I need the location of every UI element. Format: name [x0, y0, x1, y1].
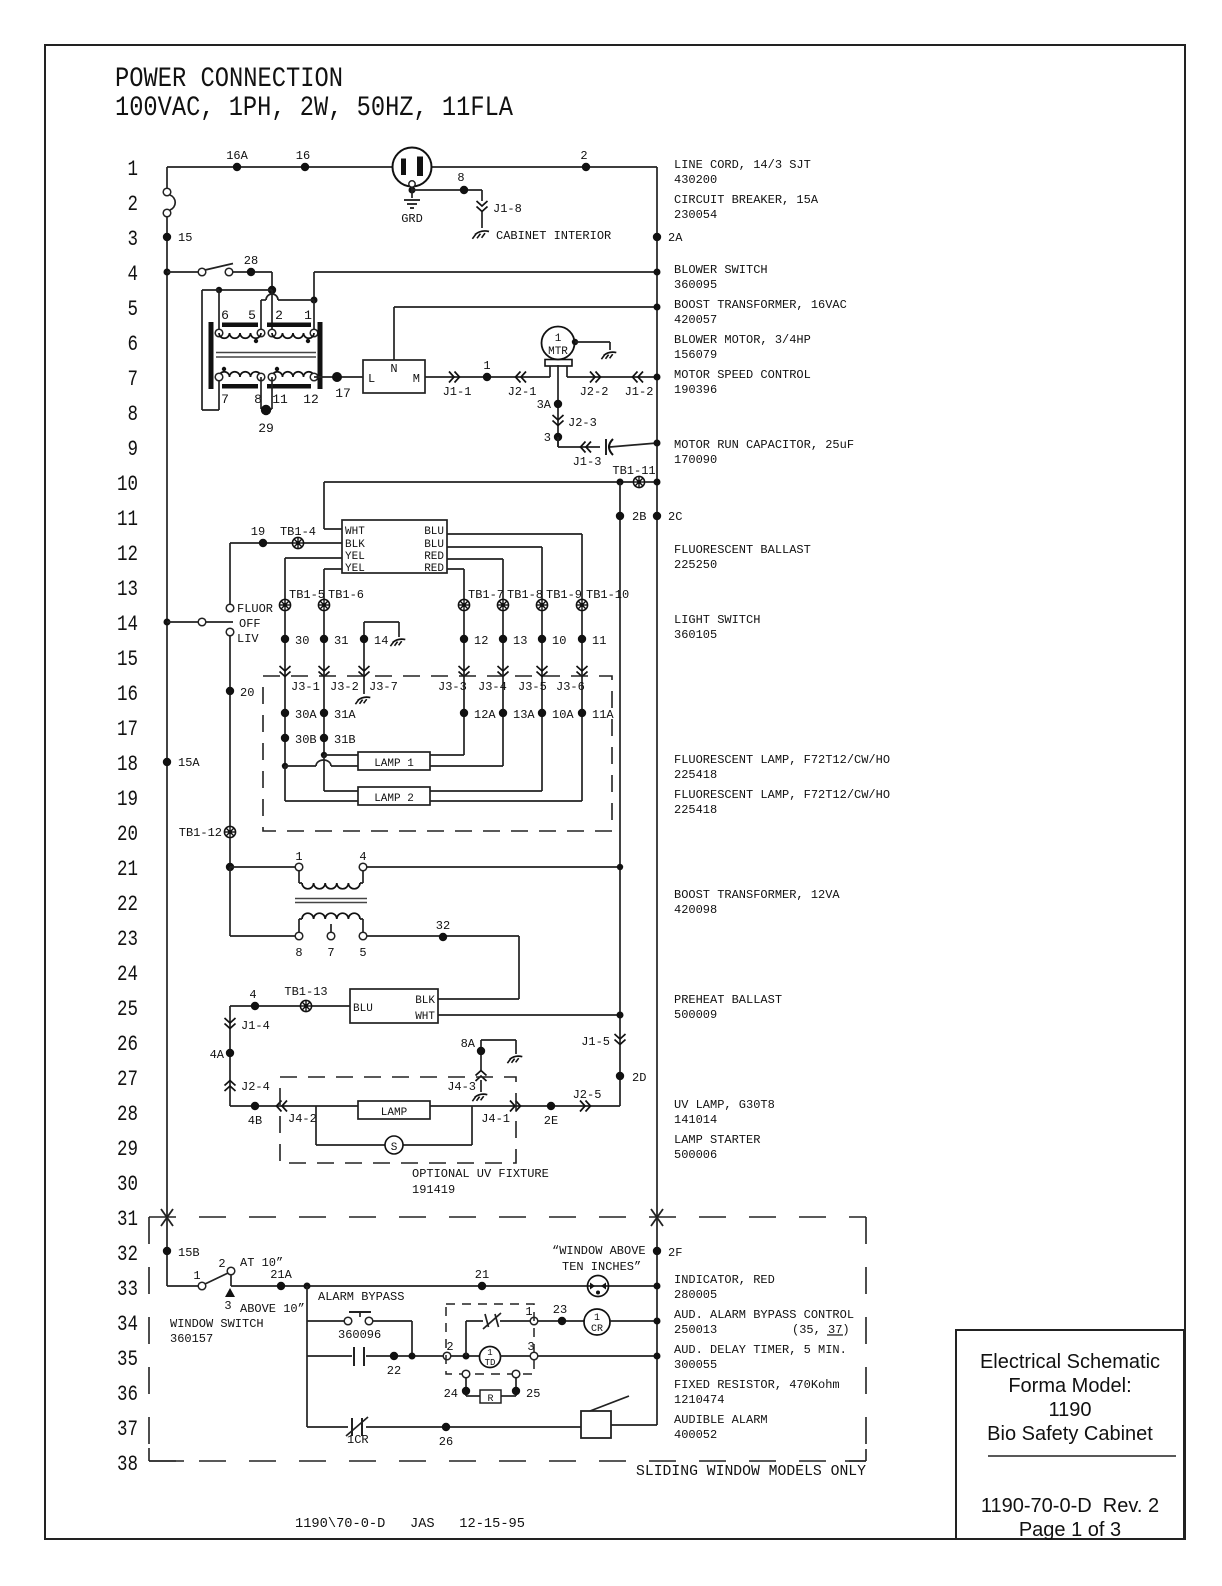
svg-text:TB1-12: TB1-12: [179, 826, 222, 840]
wire CR to right rail: [610, 1320, 657, 1322]
svg-text:AUDIBLE ALARM: AUDIBLE ALARM: [674, 1413, 768, 1427]
title block divider: [988, 1455, 1176, 1457]
wire WHT to 2B line: [438, 1014, 620, 1016]
fluorescent ballast B1: [342, 520, 447, 575]
timer contact 2: [443, 1340, 453, 1360]
svg-text:33: 33: [117, 1277, 138, 1302]
ground GRD under plug: [401, 187, 423, 227]
svg-text:J2-3: J2-3: [568, 416, 597, 430]
lamp starter S: [385, 1136, 403, 1154]
chassis ground at node 14: [390, 639, 405, 646]
blower switch S1: [198, 264, 233, 276]
wire TB1-10 chain 11: [581, 611, 583, 801]
svg-text:1: 1: [555, 333, 562, 345]
svg-text:36: 36: [117, 1382, 138, 1407]
svg-text:2: 2: [218, 1257, 225, 1271]
svg-text:MOTOR SPEED CONTROL: MOTOR SPEED CONTROL: [674, 368, 811, 382]
node 21: [475, 1268, 489, 1290]
svg-text:J2-4: J2-4: [241, 1080, 270, 1094]
label BLOWER MOTOR, 3/4HP / 156079: [674, 333, 811, 362]
svg-text:RED: RED: [424, 563, 444, 575]
node 16A: [226, 149, 248, 171]
svg-text:J1-4: J1-4: [241, 1019, 270, 1033]
motor case ground wire: [572, 339, 610, 350]
chassis ground below J4-3: [472, 1094, 487, 1101]
T1 pin 2 lead: [271, 290, 273, 333]
connector J1-3: [573, 442, 602, 470]
chassis ground at motor: [601, 352, 616, 359]
svg-text:8A: 8A: [461, 1037, 476, 1051]
node 2A: [653, 231, 683, 245]
svg-text:WHT: WHT: [345, 526, 365, 538]
svg-text:225418: 225418: [674, 803, 717, 817]
junction left rail row 14: [164, 619, 171, 626]
node 2: [580, 149, 590, 171]
T1 side shield bars: [209, 322, 323, 389]
connector J3-5: [518, 666, 548, 694]
svg-text:24: 24: [444, 1387, 458, 1401]
node 32: [436, 919, 450, 941]
svg-text:26: 26: [117, 1032, 138, 1057]
connector J3-1: [280, 666, 320, 694]
svg-text:J3-6: J3-6: [556, 680, 585, 694]
svg-text:S: S: [391, 1142, 398, 1154]
wire TB1-12 to row 21: [229, 838, 231, 867]
svg-text:29: 29: [258, 421, 274, 436]
connector J3-7: [359, 666, 398, 694]
wire TD to contact 3: [500, 1355, 530, 1357]
node 13A: [499, 708, 536, 722]
label AUD. ALARM BYPASS CONTROL / 250013: [674, 1308, 854, 1337]
connector J2-4: [225, 1080, 270, 1094]
junction right rail row 33: [654, 1283, 661, 1290]
wire YEL1 to TB1-5: [285, 558, 342, 599]
label LAMP STARTER / 500006: [674, 1133, 760, 1162]
svg-text:9: 9: [128, 437, 139, 462]
svg-text:37: 37: [117, 1417, 138, 1442]
svg-text:13: 13: [513, 634, 527, 648]
svg-text:500009: 500009: [674, 1008, 717, 1022]
wire row 34 alarm bypass: [307, 1321, 412, 1356]
svg-text:2: 2: [275, 308, 283, 323]
svg-text:PREHEAT BALLAST: PREHEAT BALLAST: [674, 993, 782, 1007]
T1 top pin circles 6 5 2 1: [215, 329, 318, 337]
wire row 28 lamp loop: [230, 1105, 620, 1107]
junction left rail row 4: [164, 269, 171, 276]
node 21A: [270, 1268, 292, 1290]
svg-text:LINE CORD, 14/3 SJT: LINE CORD, 14/3 SJT: [674, 158, 811, 172]
wire TB1-6 to lamp chain 31: [323, 611, 325, 755]
svg-text:TB1-11: TB1-11: [612, 464, 655, 478]
svg-text:3: 3: [128, 227, 139, 252]
connector J4-2: [277, 1101, 317, 1127]
svg-text:19: 19: [251, 525, 265, 539]
fluorescent lamp LAMP 2: [358, 787, 430, 805]
svg-text:FIXED RESISTOR, 470Kohm: FIXED RESISTOR, 470Kohm: [674, 1378, 840, 1392]
svg-text:YEL: YEL: [345, 563, 365, 575]
svg-text:2E: 2E: [544, 1114, 558, 1128]
svg-text:32: 32: [117, 1242, 138, 1267]
connector J3-6: [556, 666, 588, 694]
node 26: [439, 1423, 453, 1449]
wire BLU side to node 4: [230, 1006, 350, 1106]
svg-text:5: 5: [248, 308, 256, 323]
svg-text:RED: RED: [424, 551, 444, 563]
junction right rail row 9: [654, 440, 661, 447]
junction 2B line row 21: [617, 864, 623, 870]
svg-text:AUD. ALARM BYPASS CONTROL: AUD. ALARM BYPASS CONTROL: [674, 1308, 854, 1322]
wire contact 3 to right rail: [538, 1355, 657, 1357]
svg-text:225418: 225418: [674, 768, 717, 782]
svg-text:11A: 11A: [592, 708, 614, 722]
svg-text:2F: 2F: [668, 1246, 682, 1260]
wire TB1-8 chain 13: [502, 611, 504, 766]
svg-text:“WINDOW ABOVE: “WINDOW ABOVE: [552, 1244, 646, 1258]
blower motor MTR: [542, 327, 575, 378]
svg-text:Forma Model:: Forma Model:: [1008, 1375, 1131, 1397]
wire BLU1 to TB1-10: [447, 534, 582, 599]
svg-text:15B: 15B: [178, 1246, 200, 1260]
svg-text:BLOWER MOTOR, 3/4HP: BLOWER MOTOR, 3/4HP: [674, 333, 811, 347]
wire 31B chain to LAMP 2: [324, 755, 358, 791]
wire RED1 to TB1-8: [447, 559, 503, 599]
svg-text:22: 22: [117, 892, 138, 917]
connector J2-1: [508, 372, 537, 400]
sliding window enclosure corner marks: [149, 1448, 866, 1461]
label BLOWER SWITCH / 360095: [674, 263, 768, 292]
wire TD branch up: [465, 1321, 467, 1356]
wire T2 pin 5 to preheat ballast: [367, 936, 519, 999]
wire J4-3 to ground: [480, 1080, 482, 1092]
svg-text:TB1-5: TB1-5: [289, 588, 325, 602]
wire row 33: [231, 1285, 657, 1287]
svg-text:M: M: [413, 372, 420, 386]
svg-text:1: 1: [483, 359, 490, 373]
junction right rail row 4: [654, 269, 661, 276]
wire timer to resistor: [466, 1378, 516, 1396]
svg-text:31: 31: [334, 634, 348, 648]
svg-text:24: 24: [117, 962, 138, 987]
lamp fixture dashed enclosure: [263, 676, 612, 831]
svg-text:1: 1: [304, 308, 312, 323]
svg-text:28: 28: [244, 254, 258, 268]
svg-text:Page 1 of 3: Page 1 of 3: [1019, 1519, 1121, 1541]
terminal TB1-12: [179, 826, 236, 840]
svg-text:2B: 2B: [632, 510, 646, 524]
title block box: [956, 1330, 1184, 1539]
wire row 4 left: [167, 271, 198, 273]
svg-text:19: 19: [117, 787, 138, 812]
svg-text:LAMP: LAMP: [381, 1107, 408, 1119]
wire contact 1 to CR: [538, 1320, 584, 1322]
svg-text:TEN INCHES”: TEN INCHES”: [562, 1260, 641, 1274]
svg-text:TB1-10: TB1-10: [586, 588, 629, 602]
node 30A: [281, 708, 318, 722]
svg-text:20: 20: [240, 686, 254, 700]
svg-text:20: 20: [117, 822, 138, 847]
svg-text:TD: TD: [485, 1358, 496, 1368]
audible alarm: [581, 1396, 629, 1438]
right rail wire: [656, 167, 658, 1425]
label LIGHT SWITCH / 360105: [674, 613, 760, 642]
connector J1-2: [625, 372, 654, 400]
terminal TB1-8: [497, 588, 543, 611]
junction row 21: [226, 863, 234, 871]
wire motor to right rail row 7: [567, 376, 657, 378]
svg-text:35: 35: [117, 1347, 138, 1372]
svg-text:OFF: OFF: [239, 617, 261, 631]
svg-text:BLK: BLK: [345, 539, 365, 551]
svg-text:500006: 500006: [674, 1148, 717, 1162]
svg-text:BLU: BLU: [353, 1003, 373, 1015]
T1 pin labels 7 8 11 12: [221, 392, 319, 407]
svg-text:Electrical Schematic: Electrical Schematic: [980, 1351, 1160, 1373]
svg-text:UV LAMP, G30T8: UV LAMP, G30T8: [674, 1098, 775, 1112]
svg-text:N: N: [390, 362, 397, 376]
svg-text:J2-2: J2-2: [580, 385, 609, 399]
terminal TB1-7: [458, 588, 504, 611]
wire row 1 top: [167, 166, 657, 168]
wire TB1-7 chain 12: [463, 611, 465, 755]
wire 31B to LAMP 1: [321, 752, 358, 758]
wire row 21 to T2 pin 1: [230, 866, 295, 868]
junction row 10 at 2B line: [617, 479, 624, 486]
relay NC contact 1CR: [346, 1417, 369, 1447]
T1 primary winding coils: [219, 333, 314, 343]
svg-text:13A: 13A: [513, 708, 535, 722]
break mark X right: [651, 1209, 663, 1226]
junction alarm branch: [304, 1283, 311, 1290]
label WINDOW ABOVE TEN INCHES: [552, 1244, 646, 1274]
svg-text:ABOVE 10”: ABOVE 10”: [240, 1302, 305, 1316]
svg-text:12A: 12A: [474, 708, 496, 722]
svg-text:4: 4: [359, 850, 366, 864]
timed NC contact: [483, 1313, 530, 1329]
svg-text:11: 11: [117, 507, 138, 532]
node 11: [578, 634, 607, 648]
optional uv fixture dashed enclosure: [280, 1077, 516, 1163]
svg-text:1190\70-0-D JAS 12-15-95: 1190\70-0-D JAS 12-15-95: [295, 1516, 525, 1532]
wire BLK to node 32 line: [438, 998, 519, 1000]
svg-text:8: 8: [457, 171, 464, 185]
svg-text:4A: 4A: [210, 1048, 225, 1062]
wire T2 pin 4 to 2B line: [367, 866, 620, 868]
circuit breaker CB1: [163, 188, 175, 217]
terminal TB1-10: [576, 588, 629, 611]
node 8: [457, 171, 468, 194]
terminal TB1-5: [279, 588, 325, 611]
svg-text:1: 1: [128, 157, 139, 182]
wire LAMP 2 to 11A chain: [430, 800, 582, 802]
svg-text:LIGHT SWITCH: LIGHT SWITCH: [674, 613, 760, 627]
svg-text:156079: 156079: [674, 348, 717, 362]
svg-text:2C: 2C: [668, 510, 682, 524]
svg-text:31A: 31A: [334, 708, 356, 722]
svg-text:TB1-9: TB1-9: [546, 588, 582, 602]
svg-text:CR: CR: [591, 1324, 603, 1335]
junction WHT at 2B line: [617, 1012, 624, 1019]
svg-text:16A: 16A: [226, 149, 248, 163]
svg-text:ALARM BYPASS: ALARM BYPASS: [318, 1290, 404, 1304]
svg-text:22: 22: [387, 1364, 401, 1378]
label CIRCUIT BREAKER, 15A / 230054: [674, 193, 819, 222]
node 28: [244, 254, 258, 276]
svg-text:26: 26: [439, 1435, 453, 1449]
T1 pin labels 6 5 2 1: [221, 308, 312, 323]
terminal TB1-4: [280, 525, 316, 549]
fluorescent lamp LAMP 1: [358, 752, 430, 770]
node 16: [296, 149, 310, 171]
node 31A: [320, 708, 357, 722]
wire row 23 left: [230, 867, 295, 936]
lamp starter loop: [316, 1106, 472, 1145]
svg-text:8: 8: [128, 402, 139, 427]
svg-text:27: 27: [117, 1067, 138, 1092]
node 12: [460, 634, 489, 648]
wire NC contact row 34: [466, 1320, 483, 1322]
svg-text:38: 38: [117, 1452, 138, 1477]
label LINE CORD, 14/3 SJT / 430200: [674, 158, 811, 187]
svg-text:360095: 360095: [674, 278, 717, 292]
node 13: [499, 634, 528, 648]
junction right rail row 7: [654, 374, 661, 381]
svg-text:250013: 250013: [674, 1323, 717, 1337]
node 4A: [210, 1048, 235, 1062]
svg-text:BOOST TRANSFORMER, 16VAC: BOOST TRANSFORMER, 16VAC: [674, 298, 847, 312]
svg-text:15: 15: [178, 231, 192, 245]
svg-text:R: R: [487, 1394, 493, 1405]
svg-text:1: 1: [487, 1348, 492, 1358]
svg-text:430200: 430200: [674, 173, 717, 187]
junction right rail row 10: [654, 479, 661, 486]
label UV LAMP, G30T8 / 141014: [674, 1098, 775, 1127]
terminal TB1-11: [612, 464, 655, 488]
svg-text:16: 16: [117, 682, 138, 707]
svg-text:15: 15: [117, 647, 138, 672]
T1 pin 1 lead: [313, 300, 315, 333]
node 2D: [616, 1071, 647, 1085]
svg-text:J1-8: J1-8: [493, 202, 522, 216]
svg-text:30: 30: [295, 634, 309, 648]
label AUD. DELAY TIMER, 5 MIN. / 300055: [674, 1343, 847, 1372]
T1 core: [216, 353, 316, 358]
svg-text:J3-1: J3-1: [291, 680, 320, 694]
svg-text:BOOST TRANSFORMER, 12VA: BOOST TRANSFORMER, 12VA: [674, 888, 840, 902]
svg-text:34: 34: [117, 1312, 138, 1337]
T1 pin 5 lead with wire hop: [261, 294, 318, 333]
svg-text:LAMP 1: LAMP 1: [374, 758, 414, 770]
node 31B: [320, 733, 356, 747]
node 2C: [653, 510, 683, 524]
svg-text:7: 7: [128, 367, 139, 392]
svg-text:TB1-8: TB1-8: [507, 588, 543, 602]
svg-text:BLOWER SWITCH: BLOWER SWITCH: [674, 263, 768, 277]
svg-text:POWER CONNECTION: POWER CONNECTION: [115, 64, 343, 95]
svg-text:1: 1: [295, 850, 302, 864]
svg-text:3: 3: [544, 431, 551, 445]
wire LAMP 1 to 12A chain: [430, 754, 464, 756]
label BOOST TRANSFORMER, 16VAC / 420057: [674, 298, 847, 327]
svg-text:7: 7: [221, 392, 229, 407]
svg-text:3: 3: [224, 1299, 231, 1313]
svg-text:L: L: [368, 372, 375, 386]
svg-text:J4-3: J4-3: [447, 1080, 476, 1094]
label MOTOR SPEED CONTROL / 190396: [674, 368, 811, 397]
preheat ballast B2: [350, 989, 438, 1023]
svg-text:360157: 360157: [170, 1332, 213, 1346]
svg-text:28: 28: [117, 1102, 138, 1127]
wire LAMP 2 to 10A chain: [430, 790, 542, 792]
svg-text:J1-5: J1-5: [581, 1035, 610, 1049]
connector J3-3: [438, 666, 470, 694]
wire T1 pin 12 to motor speed control: [314, 376, 363, 378]
wire LIV contact down: [229, 636, 231, 826]
node 22: [387, 1352, 401, 1378]
wire contact 2 to TD: [451, 1355, 480, 1357]
node 15: [163, 231, 193, 245]
svg-text:2: 2: [128, 192, 139, 217]
svg-text:J3-3: J3-3: [438, 680, 467, 694]
line cord plug P1: [393, 148, 432, 188]
connector J3-2: [319, 666, 359, 694]
svg-text:191419: 191419: [412, 1183, 455, 1197]
chassis ground 8A right: [507, 1056, 522, 1063]
relay coil 1CR: [584, 1309, 610, 1335]
svg-text:30: 30: [117, 1172, 138, 1197]
node 23: [553, 1303, 567, 1325]
label AUDIBLE ALARM / 400052: [674, 1413, 768, 1442]
connector J1-8: [477, 201, 522, 216]
wire rail to light switch: [167, 621, 198, 623]
svg-text:AUD. DELAY TIMER, 5 MIN.: AUD. DELAY TIMER, 5 MIN.: [674, 1343, 847, 1357]
svg-text:1CR: 1CR: [347, 1433, 369, 1447]
svg-text:30A: 30A: [295, 708, 317, 722]
indicator lamp red: [588, 1276, 609, 1297]
junction TD input: [463, 1353, 470, 1360]
svg-text:J4-1: J4-1: [481, 1112, 510, 1126]
fixed resistor R: [480, 1390, 501, 1405]
svg-text:420098: 420098: [674, 903, 717, 917]
junction right rail row 5: [654, 304, 661, 311]
svg-text:31B: 31B: [334, 733, 356, 747]
svg-text:2A: 2A: [668, 231, 683, 245]
svg-text:230054: 230054: [674, 208, 717, 222]
connector J1-5: [581, 1034, 625, 1049]
svg-text:TB1-6: TB1-6: [328, 588, 364, 602]
wire 30B to LAMP 1 with hop: [282, 760, 358, 769]
wire N to row 5: [394, 307, 657, 360]
svg-text:5: 5: [359, 946, 366, 960]
node 19: [251, 525, 267, 547]
svg-text:J4-2: J4-2: [288, 1112, 317, 1126]
svg-text:141014: 141014: [674, 1113, 717, 1127]
svg-text:CABINET INTERIOR: CABINET INTERIOR: [496, 229, 611, 243]
svg-text:LAMP 2: LAMP 2: [374, 793, 414, 805]
svg-text:6: 6: [221, 308, 229, 323]
timer dashed enclosure: [446, 1304, 534, 1374]
svg-text:MOTOR RUN CAPACITOR, 25uF: MOTOR RUN CAPACITOR, 25uF: [674, 438, 854, 452]
svg-text:SLIDING WINDOW MODELS ONLY: SLIDING WINDOW MODELS ONLY: [636, 1463, 866, 1480]
node 1: [483, 359, 491, 381]
svg-text:14: 14: [374, 634, 388, 648]
node 25: [512, 1387, 541, 1401]
svg-text:LAMP STARTER: LAMP STARTER: [674, 1133, 760, 1147]
label FLUORESCENT LAMP, F72T12/CW/HO / 225418: [674, 788, 890, 817]
junction node at 412: [409, 1353, 416, 1360]
svg-text:J3-7: J3-7: [369, 680, 398, 694]
node 10: [538, 634, 567, 648]
svg-text:4: 4: [128, 262, 139, 287]
